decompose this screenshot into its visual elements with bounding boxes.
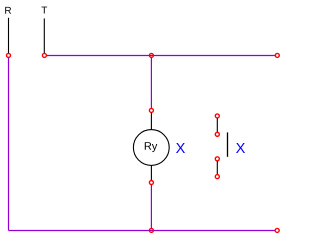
terminal T circle: [42, 53, 46, 57]
coil lead top: [150, 113, 152, 130]
contact lead top: [216, 118, 218, 132]
terminal lead R: [8, 18, 10, 53]
node top-right open terminal: [275, 53, 279, 57]
node coil bottom: [149, 181, 153, 185]
node bottom-right open terminal: [275, 228, 279, 232]
wire bottom horizontal: [9, 230, 276, 232]
wire top horizontal: [47, 55, 275, 57]
contact lead bottom: [216, 161, 218, 174]
wire coil branch lower: [150, 185, 152, 229]
node top junction: [149, 53, 153, 57]
wire coil branch upper: [150, 58, 152, 109]
terminal R circle: [7, 53, 11, 57]
contact terminal circle top: [215, 114, 219, 118]
contact pole circle lower: [215, 157, 219, 161]
relay coil circle Ry: [133, 130, 169, 166]
contact pole circle upper: [215, 132, 219, 136]
coil lead bottom: [150, 166, 152, 181]
contact bar: [227, 132, 229, 156]
terminal lead T: [43, 18, 45, 53]
node bottom junction: [149, 228, 153, 232]
node coil top: [149, 108, 153, 112]
terminal label T: [41, 7, 47, 14]
relay tag X: [176, 143, 185, 153]
contact tag X: [236, 143, 245, 153]
contact terminal circle bottom: [215, 175, 219, 179]
wire left rail: [8, 58, 10, 231]
terminal label R: [5, 7, 11, 14]
relay label Ry: [145, 142, 158, 152]
